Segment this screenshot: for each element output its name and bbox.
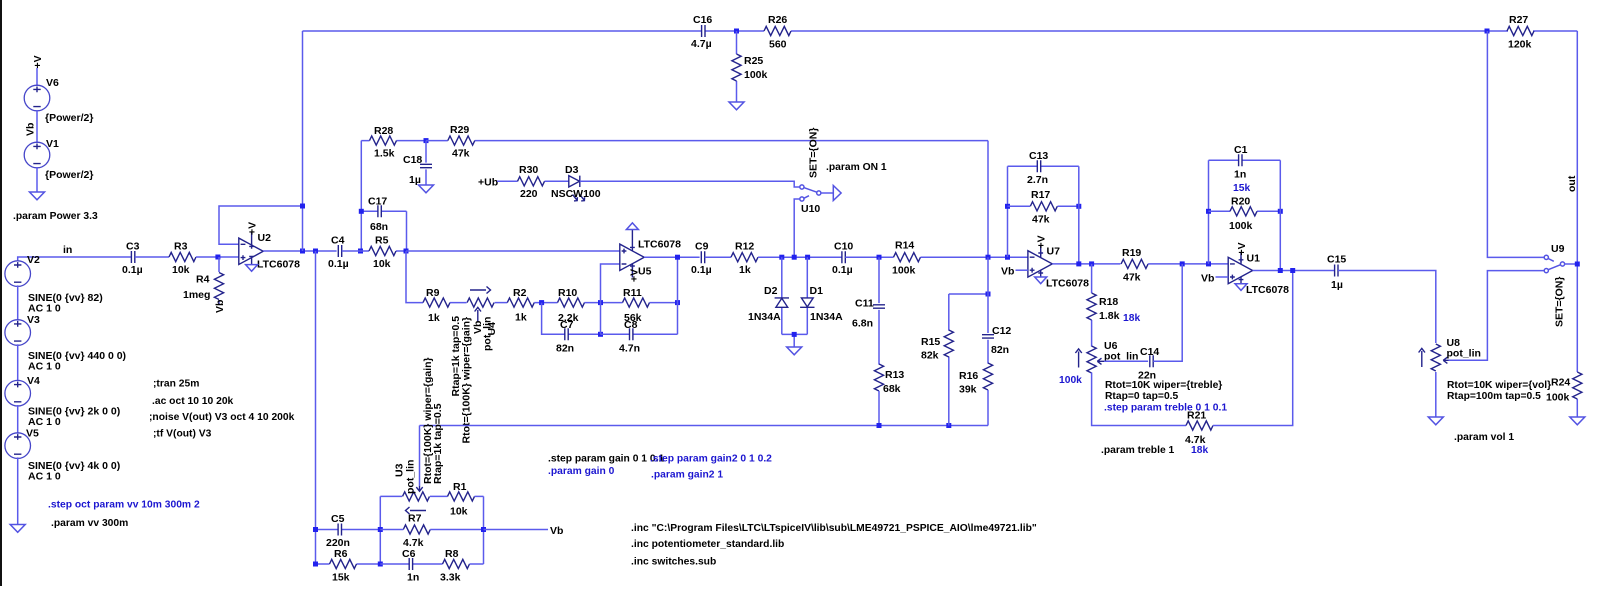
svg-text:47k: 47k xyxy=(1123,272,1141,284)
wire R28 row riser x=361.3 xyxy=(360,141,362,251)
potentiometer U4 pot_lin xyxy=(450,287,498,444)
resistor R4 xyxy=(183,257,224,304)
svg-text:.step oct param vv 10m 300m 2: .step oct param vv 10m 300m 2 xyxy=(48,500,200,511)
wire Vb to U1 +in xyxy=(1216,276,1229,278)
svg-text:R18: R18 xyxy=(1099,296,1118,308)
svg-text:.param treble 1: .param treble 1 xyxy=(1101,445,1175,456)
svg-text:1.5k: 1.5k xyxy=(374,148,395,160)
net label Vb under R4 xyxy=(214,300,226,313)
svg-text:Rtot=10K wiper={vol}: Rtot=10K wiper={vol} xyxy=(1447,380,1551,391)
svg-text:R13: R13 xyxy=(885,369,904,381)
junction U5 out xyxy=(675,255,680,260)
op-amp U1 LTC6078 xyxy=(1228,253,1289,297)
resistor R1 xyxy=(448,481,484,518)
wire top rail to U9 xyxy=(1487,31,1544,257)
op-amp U5 LTC6078 (mirrored) xyxy=(620,230,681,278)
svg-text:Rtap=1k tap=0.5: Rtap=1k tap=0.5 xyxy=(450,316,462,397)
svg-text:82k: 82k xyxy=(921,350,939,362)
svg-text:Rtap=0 tap=0.5: Rtap=0 tap=0.5 xyxy=(1105,391,1179,402)
junction R13 bottom xyxy=(877,423,882,428)
wire C1/R20 right riser xyxy=(1279,160,1281,270)
resistor R5 xyxy=(342,235,406,271)
op-amp U7 LTC6078 xyxy=(1028,246,1089,290)
capacitor C9 xyxy=(691,241,712,277)
svg-text:.step param gain2 0 1 0.2: .step param gain2 0 1 0.2 xyxy=(650,454,772,465)
junction R20 right xyxy=(1278,209,1283,214)
wire top rail xyxy=(303,30,1578,32)
junction top rail / U9 rail xyxy=(1485,29,1490,34)
svg-text:+V: +V xyxy=(1236,242,1248,255)
wire C9-R12 xyxy=(705,256,731,258)
resistor R8 xyxy=(440,548,484,584)
wire C10-R14 xyxy=(845,256,893,258)
svg-text:1k: 1k xyxy=(515,312,527,324)
ground under R25 xyxy=(729,102,744,110)
voltage source V5 xyxy=(5,428,120,483)
svg-text:R30: R30 xyxy=(519,164,538,176)
svg-text:15k: 15k xyxy=(332,572,350,584)
junction C11 xyxy=(877,255,882,260)
svg-text:1meg: 1meg xyxy=(183,289,210,301)
ground under D1 D2 xyxy=(787,347,802,355)
capacitor C15 xyxy=(1327,254,1346,292)
svg-text:1N34A: 1N34A xyxy=(810,311,843,323)
svg-text:{Power/2}: {Power/2} xyxy=(45,112,93,124)
net label Vb at U4 wiper xyxy=(472,321,484,334)
svg-text:.ac oct 10 10 20k: .ac oct 10 10 20k xyxy=(152,396,234,407)
svg-text:R7: R7 xyxy=(408,513,422,525)
wire R29 long drop to U7 row xyxy=(987,141,989,257)
resistor R15 xyxy=(921,294,988,426)
svg-text:R5: R5 xyxy=(375,235,389,247)
svg-text:R28: R28 xyxy=(374,125,393,137)
svg-text:+V: +V xyxy=(629,269,641,282)
svg-text:0.1µ: 0.1µ xyxy=(328,258,349,270)
net flag +V above U1 xyxy=(1236,242,1248,255)
svg-text:U9: U9 xyxy=(1551,243,1565,255)
svg-text:C11: C11 xyxy=(855,298,874,310)
svg-text:V1: V1 xyxy=(46,138,59,150)
junction C6 left xyxy=(378,562,383,567)
resistor R2 xyxy=(507,287,534,324)
wire U6 wiper to C14 xyxy=(1104,360,1148,362)
wire R14 to U7 xyxy=(921,256,1028,258)
svg-text:R25: R25 xyxy=(744,55,763,67)
svg-text:R6: R6 xyxy=(334,548,348,560)
junction R21 riser xyxy=(1290,268,1295,273)
svg-text:U2: U2 xyxy=(258,232,272,244)
svg-text:C3: C3 xyxy=(126,241,140,253)
potentiometer U3 pot_lin (mirrored) xyxy=(380,357,444,514)
net label SET={ON} at U10 xyxy=(808,128,820,178)
junction R17 left xyxy=(1005,204,1010,209)
svg-text:1k: 1k xyxy=(739,264,751,276)
wire R5 node down to R9 row xyxy=(406,251,423,303)
junction C17 left xyxy=(359,209,364,214)
ground under V5 xyxy=(10,525,25,533)
junction R5 out xyxy=(404,249,409,254)
ground under C18 xyxy=(419,185,434,193)
wire U8 wiper from U9 xyxy=(1449,271,1545,361)
net label out xyxy=(1566,175,1578,192)
window left border xyxy=(0,0,2,586)
svg-text:10k: 10k xyxy=(450,506,468,518)
ground under V1 xyxy=(30,192,45,200)
svg-text:D1: D1 xyxy=(810,285,824,297)
potentiometer U6 pot_lin xyxy=(1059,340,1138,386)
junction R7 left xyxy=(378,527,383,532)
capacitor C12 xyxy=(982,257,1011,363)
svg-text:;tf V(out) V3: ;tf V(out) V3 xyxy=(153,429,212,440)
resistor R11 xyxy=(623,287,650,324)
junction R15 bottom xyxy=(946,423,951,428)
resistor R28 xyxy=(361,125,426,160)
svg-text:V6: V6 xyxy=(46,77,59,89)
resistor R16 xyxy=(959,363,993,426)
wire U8 bottom to ground xyxy=(1435,372,1437,417)
wire R10-R11 xyxy=(585,302,623,304)
svg-text:39k: 39k xyxy=(959,384,977,396)
diode D2 1N34A (cathode up) xyxy=(748,257,789,334)
capacitor C14 xyxy=(1138,346,1159,382)
wire R3 to U2 +in xyxy=(196,256,239,258)
capacitor C18 xyxy=(403,141,432,186)
ground flag at U1 V- xyxy=(1235,284,1247,291)
junction D2 xyxy=(779,255,784,260)
wire C13/R17 right riser xyxy=(1078,166,1080,264)
svg-text:0.1µ: 0.1µ xyxy=(691,264,712,276)
svg-text:C9: C9 xyxy=(695,241,709,253)
capacitor C17 xyxy=(361,196,406,252)
svg-text:D2: D2 xyxy=(764,285,778,297)
svg-text:.param vv 300m: .param vv 300m xyxy=(51,518,128,529)
svg-text:C14: C14 xyxy=(1140,346,1159,358)
svg-text:C8: C8 xyxy=(624,319,638,331)
junction C5 left xyxy=(313,527,318,532)
svg-text:C18: C18 xyxy=(403,154,422,166)
capacitor C8 xyxy=(601,319,678,355)
svg-text:SET={ON}: SET={ON} xyxy=(808,128,820,178)
svg-text:out: out xyxy=(1566,175,1578,192)
resistor R24 xyxy=(1546,372,1582,417)
switch U9 xyxy=(1544,243,1577,273)
svg-text:;noise V(out) V3 oct 4 10 200k: ;noise V(out) V3 oct 4 10 200k xyxy=(149,412,295,423)
wire V2-V3 xyxy=(17,285,19,320)
net flag +V below U5 xyxy=(629,269,641,282)
svg-text:V4: V4 xyxy=(27,375,40,387)
voltage source V3 xyxy=(5,314,126,373)
resistor R26 xyxy=(764,14,791,51)
resistor R3 xyxy=(169,241,196,277)
resistor R21 xyxy=(1185,410,1213,457)
svg-text:D3: D3 xyxy=(565,164,579,176)
resistor R19 xyxy=(1121,247,1148,284)
junction diode gnd xyxy=(792,332,797,337)
svg-text:R16: R16 xyxy=(959,370,978,382)
wire R21 to U1 out riser xyxy=(1213,271,1293,426)
resistor R9 xyxy=(423,287,450,324)
svg-text:Vb: Vb xyxy=(550,525,563,537)
svg-text:LTC6078: LTC6078 xyxy=(638,239,681,251)
wire C13/R17 left riser xyxy=(1007,166,1009,257)
svg-text:U10: U10 xyxy=(801,203,820,215)
svg-text:.param vol 1: .param vol 1 xyxy=(1454,432,1514,443)
wire right rail (out) xyxy=(1576,31,1578,372)
wire V1 bottom xyxy=(36,167,38,192)
wire U3 wiper riser xyxy=(419,426,421,487)
svg-text:+V: +V xyxy=(1036,235,1048,248)
wire input row from V2 to C3 xyxy=(18,257,132,261)
svg-text:pot_lin: pot_lin xyxy=(404,460,416,494)
voltage source V6 xyxy=(24,77,93,124)
svg-text:18k: 18k xyxy=(1191,445,1208,456)
svg-text:LTC6078: LTC6078 xyxy=(257,259,300,271)
junction U1 out feedback xyxy=(1278,268,1283,273)
wire R5 to U5 +in xyxy=(406,250,620,252)
wire U4-R2 xyxy=(495,302,508,304)
wire C3-R3 xyxy=(135,256,169,258)
svg-text:Vb: Vb xyxy=(214,300,226,313)
wire diode bottoms join xyxy=(782,334,808,347)
switch U10 xyxy=(800,185,833,215)
svg-text:100k: 100k xyxy=(1059,375,1082,386)
resistor R17 xyxy=(1008,189,1079,226)
op-amp U2 LTC6078 xyxy=(239,232,300,271)
svg-text:4.7n: 4.7n xyxy=(619,343,640,355)
capacitor C11 xyxy=(852,257,885,364)
capacitor C6 xyxy=(380,548,442,584)
svg-text:Rtot=10K wiper={treble}: Rtot=10K wiper={treble} xyxy=(1105,380,1222,391)
svg-text:.param ON 1: .param ON 1 xyxy=(826,162,887,173)
svg-text:82n: 82n xyxy=(556,343,574,355)
wire U5 out xyxy=(644,256,699,258)
resistor R25 xyxy=(732,31,768,102)
svg-text:U7: U7 xyxy=(1047,246,1061,258)
svg-text:C16: C16 xyxy=(693,14,712,26)
wire U2 out xyxy=(263,250,336,252)
wire U2 feedback xyxy=(219,206,303,244)
svg-text:C5: C5 xyxy=(331,513,345,525)
svg-text:R27: R27 xyxy=(1509,14,1528,26)
svg-text:1n: 1n xyxy=(407,572,419,584)
net label SET={ON} at U9 xyxy=(1553,277,1565,327)
junction R17 right xyxy=(1076,204,1081,209)
svg-text:C12: C12 xyxy=(992,325,1011,337)
diode D3 NSCW100 (LED) xyxy=(551,164,601,201)
svg-text:LTC6078: LTC6078 xyxy=(1246,284,1289,296)
net label Vb xyxy=(25,123,37,136)
wire R12 to C10 xyxy=(758,256,842,258)
svg-text:R12: R12 xyxy=(735,241,754,253)
svg-text:NSCW100: NSCW100 xyxy=(551,188,601,200)
junction C4/C17 riser xyxy=(358,249,363,254)
junction U7 -in feedback xyxy=(1005,255,1010,260)
svg-text:68k: 68k xyxy=(883,383,901,395)
resistor R30 xyxy=(497,164,569,200)
svg-text:LTC6078: LTC6078 xyxy=(1046,278,1089,290)
svg-text:AC 1 0: AC 1 0 xyxy=(28,416,61,428)
svg-text:R10: R10 xyxy=(558,287,577,299)
svg-text:100k: 100k xyxy=(1546,392,1570,404)
svg-text:V2: V2 xyxy=(27,254,40,266)
ground under R24 xyxy=(1570,417,1585,425)
wire Vb to U7 +in xyxy=(1016,269,1028,271)
svg-text:100k: 100k xyxy=(892,265,916,277)
svg-text:0.1µ: 0.1µ xyxy=(122,264,143,276)
svg-text:0.1µ: 0.1µ xyxy=(832,264,853,276)
wire C14 up to R19 row xyxy=(1153,264,1182,361)
junction C13 loop return xyxy=(1076,261,1081,266)
resistor R6 xyxy=(316,548,381,584)
voltage source V1 xyxy=(24,138,93,181)
wire C15 to U8 xyxy=(1338,271,1436,344)
resistor R13 xyxy=(874,364,904,426)
svg-text:560: 560 xyxy=(769,39,787,51)
wire U5 -in riser xyxy=(601,264,620,334)
wire V6 top xyxy=(36,68,38,86)
svg-text:C10: C10 xyxy=(834,241,853,253)
svg-text:1k: 1k xyxy=(428,312,440,324)
ground under U8 xyxy=(1428,417,1443,425)
capacitor C4 xyxy=(328,235,349,271)
svg-text:18k: 18k xyxy=(1123,313,1140,324)
svg-text:10k: 10k xyxy=(172,264,190,276)
wire U3-R1 xyxy=(430,495,448,497)
svg-text:+V: +V xyxy=(32,55,44,68)
junction U2 out / top rail xyxy=(300,249,305,254)
svg-text:R11: R11 xyxy=(623,287,642,299)
svg-text:Vb: Vb xyxy=(1001,266,1014,278)
svg-text:R24: R24 xyxy=(1551,377,1570,389)
svg-text:1µ: 1µ xyxy=(409,174,421,186)
svg-text:R26: R26 xyxy=(768,14,787,26)
svg-text:Rtap=100m tap=0.5: Rtap=100m tap=0.5 xyxy=(1447,391,1541,402)
junction C16/R25 xyxy=(734,29,739,34)
svg-text:C7: C7 xyxy=(560,319,574,331)
junction R29 drop xyxy=(986,255,991,260)
svg-text:Vb: Vb xyxy=(25,123,37,136)
diode D1 1N34A (cathode down) xyxy=(800,257,843,334)
svg-text:.param gain2 1: .param gain2 1 xyxy=(651,470,723,481)
capacitor C10 xyxy=(832,241,853,277)
svg-text:R3: R3 xyxy=(174,241,188,253)
svg-text:.inc switches.sub: .inc switches.sub xyxy=(631,557,716,568)
svg-text:U1: U1 xyxy=(1247,253,1261,265)
wire bottom feedback row xyxy=(420,425,989,427)
svg-text:R4: R4 xyxy=(196,274,210,286)
junction C7/C8 xyxy=(598,332,603,337)
svg-text:R2: R2 xyxy=(513,287,527,299)
resistor R27 xyxy=(1507,14,1534,51)
svg-text:C17: C17 xyxy=(368,196,387,208)
svg-text:10k: 10k xyxy=(373,258,391,270)
junction C1/R20 left riser xyxy=(1206,261,1211,266)
junction feedback tap xyxy=(300,204,305,209)
svg-text:1.8k: 1.8k xyxy=(1099,310,1120,322)
resistor R14 xyxy=(892,240,921,277)
svg-text:C15: C15 xyxy=(1327,254,1346,266)
ground flag at U7 V- xyxy=(1035,277,1047,284)
svg-text:{Power/2}: {Power/2} xyxy=(45,169,93,181)
junction R11 right xyxy=(675,300,680,305)
svg-text:SET={ON}: SET={ON} xyxy=(1553,277,1565,327)
wire D3 to switch U10 xyxy=(580,181,800,187)
svg-text:pot_lin: pot_lin xyxy=(1447,348,1481,360)
svg-text:.inc potentiometer_standard.li: .inc potentiometer_standard.lib xyxy=(631,539,784,550)
junction C14 riser xyxy=(1180,261,1185,266)
voltage source V2 xyxy=(5,254,103,315)
wire V3-V4 xyxy=(17,344,19,381)
capacitor C7 xyxy=(542,303,601,355)
svg-text:Vb: Vb xyxy=(472,321,484,334)
junction U2 out / tone tap xyxy=(313,249,318,254)
net flag +V above U7 xyxy=(1036,235,1048,248)
svg-text:+Ub: +Ub xyxy=(478,177,498,189)
wire U7 out xyxy=(1052,263,1120,265)
wire V6-V1, node Vb xyxy=(36,110,38,143)
svg-text:6.8n: 6.8n xyxy=(852,318,873,330)
ground flag above U5 (inverted) xyxy=(626,223,638,230)
junction U9 common on out rail xyxy=(1575,262,1580,267)
svg-text:100k: 100k xyxy=(744,69,768,81)
junction R18 tap xyxy=(1089,261,1094,266)
resistor R12 xyxy=(731,241,758,277)
resistor R18 xyxy=(1087,264,1140,347)
svg-text:220: 220 xyxy=(520,188,538,200)
resistor R29 xyxy=(426,124,988,160)
svg-text:V5: V5 xyxy=(26,428,39,440)
wire V4-V5 xyxy=(17,405,19,434)
svg-text:R14: R14 xyxy=(895,240,914,252)
svg-text:AC 1 0: AC 1 0 xyxy=(28,471,61,483)
wire R11 right xyxy=(650,302,678,304)
tone network left riser xyxy=(379,496,381,564)
svg-text:120k: 120k xyxy=(1508,39,1532,51)
junction R28/R29/C18 xyxy=(424,138,429,143)
junction D1 xyxy=(805,255,810,260)
wire top-rail riser x=302.5 xyxy=(302,31,304,251)
net flag +V above U2 xyxy=(247,222,259,235)
wire R9-U4 xyxy=(450,302,467,304)
svg-text:15k: 15k xyxy=(1233,183,1250,194)
svg-text:C1: C1 xyxy=(1234,144,1248,156)
svg-text:47k: 47k xyxy=(1032,214,1050,226)
ground flag at U2 V- xyxy=(246,265,258,272)
svg-text:;tran 25m: ;tran 25m xyxy=(153,379,199,390)
svg-text:R20: R20 xyxy=(1231,196,1250,208)
wire R19 to U1 xyxy=(1148,263,1228,265)
junction R7 right / Vb stub xyxy=(481,527,486,532)
wire U1 out xyxy=(1253,270,1335,272)
svg-text:V3: V3 xyxy=(27,314,40,326)
resistor R7 xyxy=(380,513,483,550)
svg-text:AC 1 0: AC 1 0 xyxy=(28,303,61,315)
svg-text:82n: 82n xyxy=(991,344,1009,356)
capacitor C1 xyxy=(1209,144,1281,194)
capacitor C13 xyxy=(1008,150,1079,186)
wire Vb stub xyxy=(484,529,549,531)
svg-text:R19: R19 xyxy=(1122,247,1141,259)
wire to tone network (vertical x=315.5) xyxy=(315,251,317,564)
junction C12 top xyxy=(986,292,991,297)
svg-text:R15: R15 xyxy=(921,336,940,348)
svg-text:.step param treble 0 1 0.1: .step param treble 0 1 0.1 xyxy=(1104,403,1227,414)
svg-text:3.3k: 3.3k xyxy=(440,572,461,584)
svg-text:1n: 1n xyxy=(1234,169,1246,181)
svg-text:R17: R17 xyxy=(1031,189,1050,201)
net flag +V (top of V6) xyxy=(32,55,44,68)
wire U6 bottom to R21 xyxy=(1092,373,1186,426)
